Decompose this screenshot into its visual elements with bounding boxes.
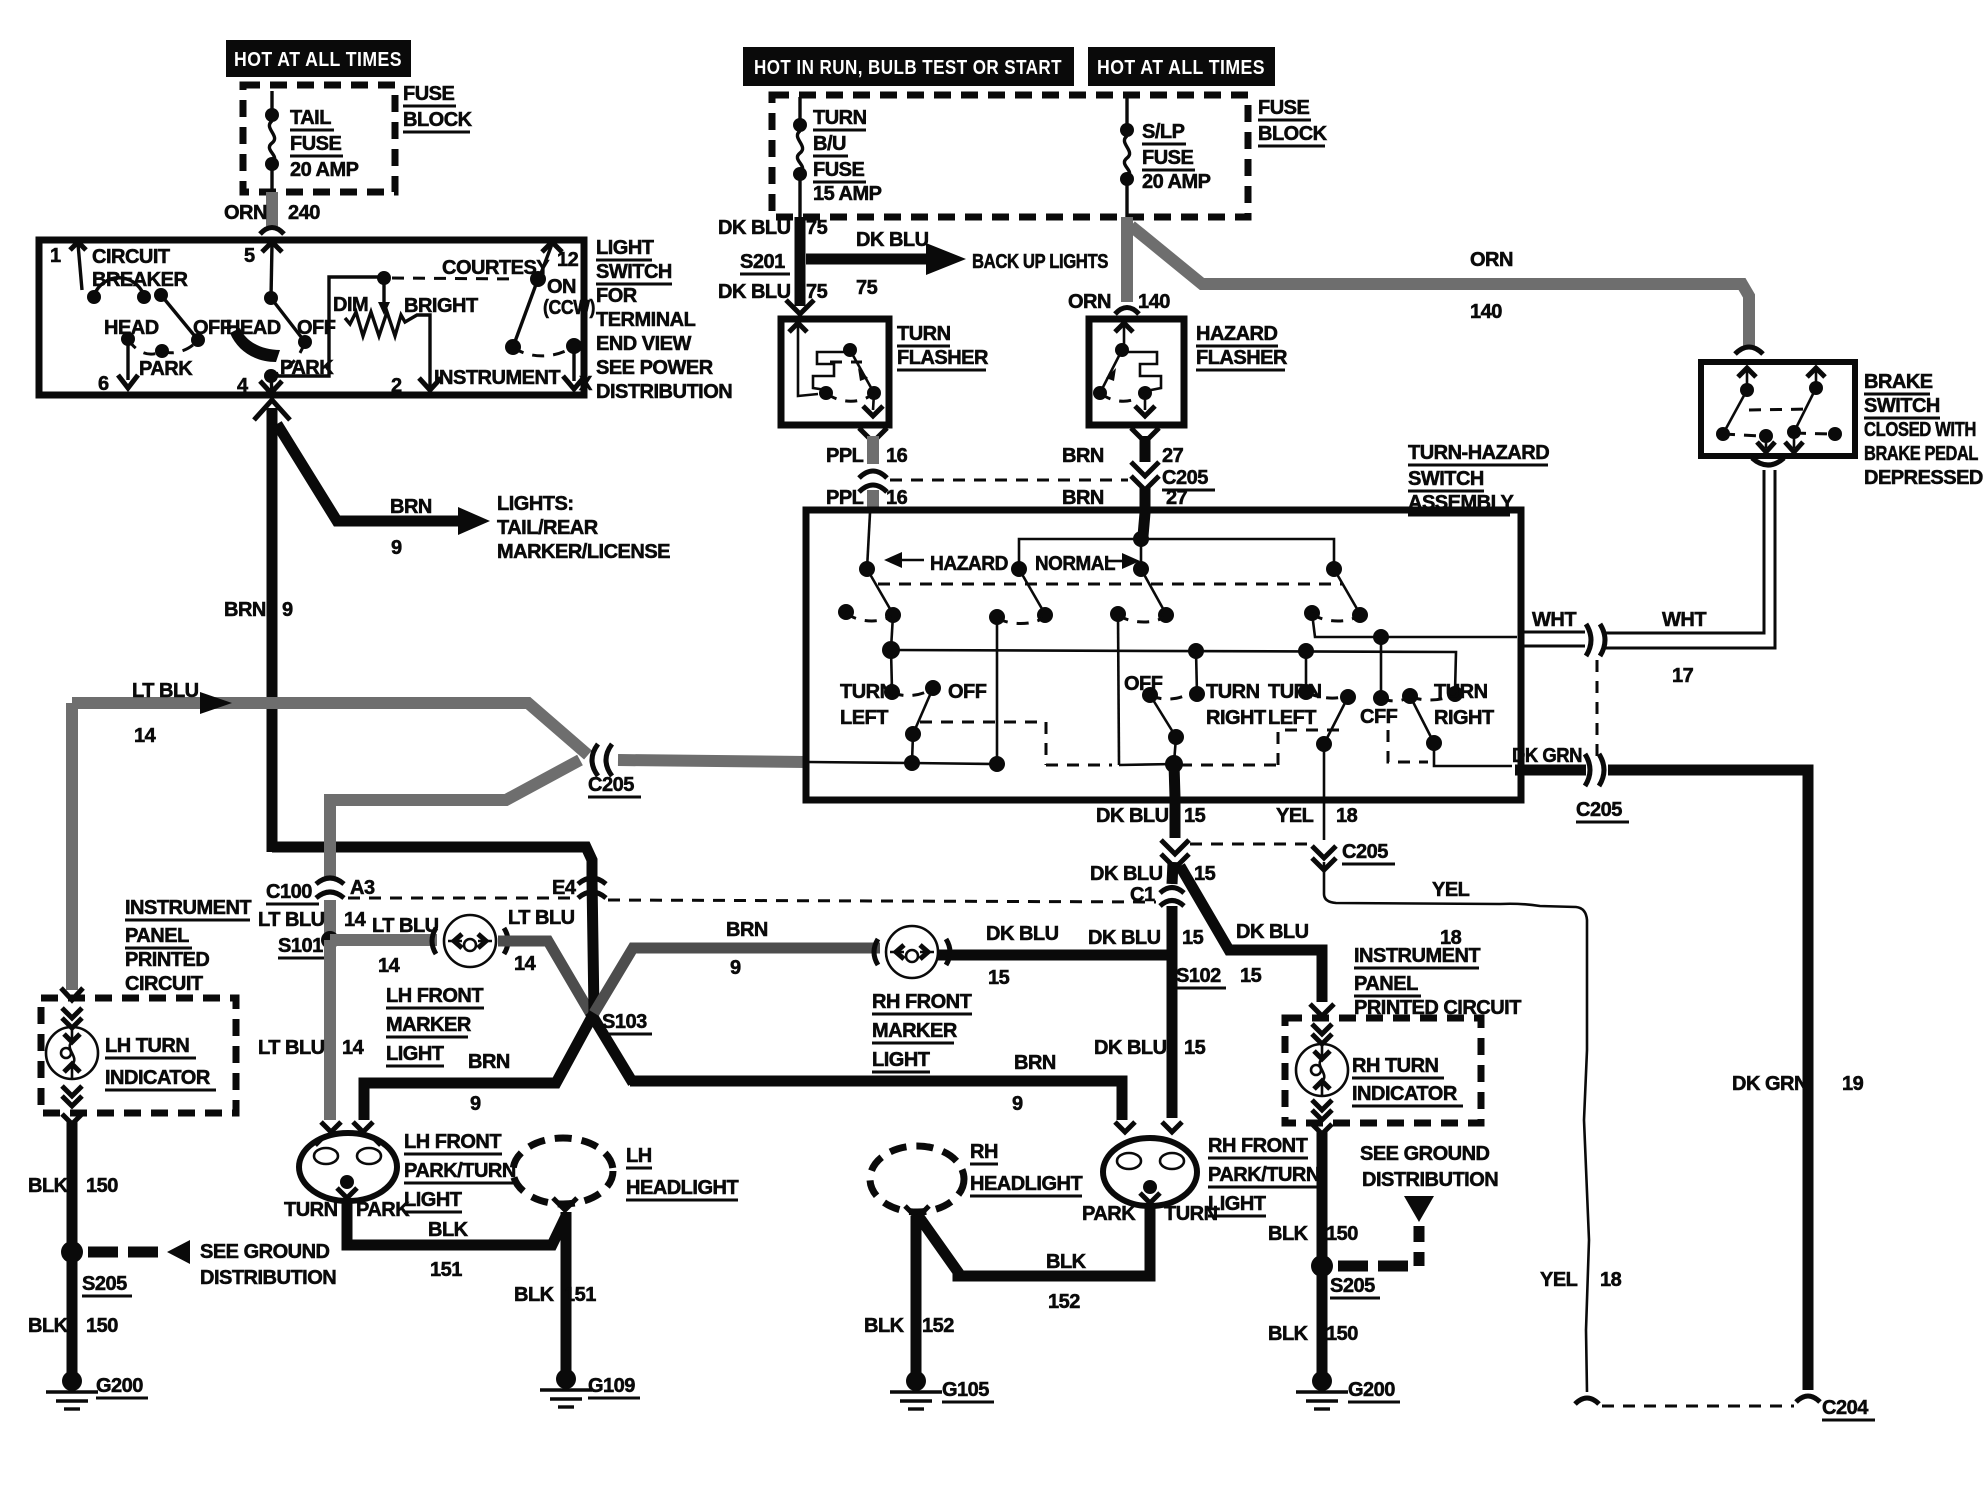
SEC_SWITCHBOX	[806, 442, 1549, 800]
svg-text:(CCW): (CCW)	[543, 297, 595, 319]
switch pole 3	[1133, 561, 1149, 577]
svg-text:S205: S205	[1330, 1275, 1375, 1297]
svg-text:DEPRESSED: DEPRESSED	[1864, 467, 1983, 489]
connector C205 (LT BLU)	[592, 744, 598, 776]
svg-text:BLOCK: BLOCK	[1258, 123, 1328, 145]
svg-text:DK BLU: DK BLU	[1236, 921, 1309, 943]
svg-text:C204: C204	[1822, 1397, 1869, 1419]
svg-text:DK BLU: DK BLU	[986, 923, 1059, 945]
svg-text:PANEL: PANEL	[1354, 973, 1418, 995]
svg-text:WHT: WHT	[1532, 609, 1576, 631]
SEC_LEFTCOL	[28, 703, 336, 1409]
svg-text:BRN: BRN	[1062, 445, 1104, 467]
svg-text:BLK: BLK	[514, 1284, 555, 1306]
svg-text:TURN: TURN	[1206, 681, 1260, 703]
wire LT BLU to LH turn indicator	[66, 703, 78, 990]
wire LT BLU lower branch to C205	[330, 760, 580, 806]
svg-text:C205: C205	[1342, 841, 1388, 863]
svg-text:LH FRONT: LH FRONT	[404, 1131, 501, 1153]
svg-text:INSTRUMENT: INSTRUMENT	[1354, 945, 1480, 967]
svg-text:PARK/TURN: PARK/TURN	[404, 1160, 516, 1182]
wire LT BLU down to LH park/turn TURN	[324, 940, 336, 1120]
svg-text:CIRCUIT: CIRCUIT	[125, 973, 203, 995]
svg-text:150: 150	[1326, 1223, 1358, 1245]
turn-hazard switch assembly box	[806, 510, 1521, 800]
svg-text:BACK UP LIGHTS: BACK UP LIGHTS	[972, 251, 1108, 273]
svg-text:LEFT: LEFT	[1268, 707, 1316, 729]
fuse S/LP FUSE 20 AMP	[1125, 97, 1128, 128]
svg-text:75: 75	[806, 217, 828, 239]
svg-text:27: 27	[1166, 487, 1188, 509]
svg-text:14: 14	[514, 953, 537, 975]
svg-text:240: 240	[288, 202, 320, 224]
svg-text:OFF: OFF	[1124, 673, 1163, 695]
svg-text:2: 2	[391, 375, 402, 397]
wire BRN inside to top rail	[1143, 513, 1145, 536]
svg-text:C205: C205	[588, 774, 634, 796]
switch pole 2	[1011, 561, 1027, 577]
svg-text:LIGHT: LIGHT	[404, 1189, 462, 1211]
svg-text:BLK: BLK	[1268, 1323, 1309, 1345]
svg-text:14: 14	[378, 955, 401, 977]
svg-text:BREAKER: BREAKER	[92, 269, 188, 291]
svg-text:HEADLIGHT: HEADLIGHT	[626, 1177, 738, 1199]
svg-text:INSTRUMENT: INSTRUMENT	[125, 897, 251, 919]
svg-text:FUSE: FUSE	[1142, 147, 1194, 169]
svg-text:PRINTED: PRINTED	[125, 949, 209, 971]
SEC_FLASHERS	[781, 319, 1288, 514]
switch TURN LEFT / OFF (left)	[891, 650, 892, 690]
svg-text:151: 151	[430, 1259, 462, 1281]
wire YEL 18 from switch assembly	[1323, 797, 1326, 840]
wire LT BLU into switch assembly	[618, 760, 806, 762]
svg-text:TURN-HAZARD: TURN-HAZARD	[1408, 442, 1549, 464]
wire DK BLU down through C1	[1172, 862, 1173, 884]
svg-text:S101: S101	[278, 935, 323, 957]
svg-text:CIRCUIT: CIRCUIT	[92, 246, 170, 268]
wire pole1 to rail	[891, 615, 893, 649]
svg-text:150: 150	[86, 1175, 118, 1197]
svg-text:RIGHT: RIGHT	[1206, 707, 1266, 729]
svg-text:LT BLU: LT BLU	[258, 909, 325, 931]
svg-text:LH TURN: LH TURN	[105, 1035, 189, 1057]
svg-text:9: 9	[282, 599, 293, 621]
SEC_BRN_LTBLU	[72, 400, 1156, 1120]
svg-text:LH FRONT: LH FRONT	[386, 985, 483, 1007]
svg-text:DISTRIBUTION: DISTRIBUTION	[1362, 1169, 1498, 1191]
svg-text:FUSE: FUSE	[290, 133, 342, 155]
svg-text:MARKER: MARKER	[872, 1020, 958, 1042]
svg-text:LIGHT: LIGHT	[386, 1043, 444, 1065]
svg-text:20 AMP: 20 AMP	[1142, 171, 1211, 193]
SEC_LIGHTSWITCH	[39, 237, 732, 403]
svg-text:TURN: TURN	[897, 323, 951, 345]
svg-text:140: 140	[1138, 291, 1170, 313]
connector LH HEADLIGHT	[513, 1138, 613, 1204]
svg-text:LH: LH	[626, 1145, 652, 1167]
svg-text:BRN: BRN	[390, 496, 432, 518]
svg-text:DK BLU: DK BLU	[718, 281, 791, 303]
svg-text:1: 1	[50, 245, 61, 267]
svg-text:75: 75	[856, 277, 878, 299]
svg-text:LT BLU: LT BLU	[372, 915, 439, 937]
light switch box	[39, 240, 584, 395]
svg-text:HOT AT ALL TIMES: HOT AT ALL TIMES	[234, 49, 402, 71]
relay TURN FLASHER	[781, 319, 889, 425]
power label HOT AT ALL TIMES (left)	[226, 40, 411, 77]
fuse TURN B/U FUSE 15 AMP	[798, 97, 801, 123]
svg-text:C1: C1	[1130, 884, 1155, 906]
arrow HAZARD	[898, 559, 924, 562]
svg-text:9: 9	[470, 1093, 481, 1115]
svg-text:HAZARD: HAZARD	[1196, 323, 1277, 345]
node top rail	[1133, 531, 1149, 547]
svg-text:16: 16	[886, 445, 908, 467]
svg-text:75: 75	[806, 281, 828, 303]
svg-text:9: 9	[1012, 1093, 1023, 1115]
power label HOT IN RUN, BULB TEST OR START	[743, 47, 1074, 86]
wire DK BLU 75 / splice S201	[795, 217, 806, 306]
svg-text:WHT: WHT	[1662, 609, 1706, 631]
connector C100 on LT BLU (A3)	[324, 800, 336, 878]
rheostat DIM/BRIGHT	[382, 284, 385, 303]
svg-text:15: 15	[1194, 863, 1216, 885]
splice S103 branch BRN 9 to RH marker	[594, 948, 880, 1013]
svg-text:BLK: BLK	[428, 1219, 469, 1241]
mechanical dashed link row1	[878, 583, 1342, 586]
svg-text:SEE GROUND: SEE GROUND	[1360, 1143, 1490, 1165]
svg-text:DK BLU: DK BLU	[718, 217, 791, 239]
svg-text:15: 15	[988, 967, 1010, 989]
wire BLK 150 below indicator	[62, 1114, 82, 1124]
wire BRN 9 to RH park/turn light	[630, 1081, 1122, 1120]
fuse block (right)	[772, 95, 1248, 217]
svg-text:TAIL: TAIL	[290, 107, 331, 129]
svg-text:S/LP: S/LP	[1142, 121, 1185, 143]
wire ORN 140 long run to brake switch	[1131, 226, 1749, 346]
svg-text:15: 15	[1184, 1037, 1206, 1059]
svg-text:INDICATOR: INDICATOR	[1352, 1083, 1458, 1105]
svg-text:HOT IN RUN, BULB TEST OR STAR: HOT IN RUN, BULB TEST OR START	[754, 57, 1062, 79]
wire ORN 240 fuse to light switch	[266, 192, 278, 230]
svg-text:TURN: TURN	[840, 681, 894, 703]
svg-text:LT BLU: LT BLU	[258, 1037, 325, 1059]
wire into tail fuse	[270, 91, 273, 113]
svg-text:SWITCH: SWITCH	[596, 261, 672, 283]
svg-text:INDICATOR: INDICATOR	[105, 1067, 211, 1089]
svg-text:SWITCH: SWITCH	[1864, 395, 1940, 417]
svg-text:RIGHT: RIGHT	[1434, 707, 1494, 729]
svg-text:LIGHTS:: LIGHTS:	[497, 493, 574, 515]
svg-text:G200: G200	[96, 1375, 143, 1397]
svg-text:150: 150	[86, 1315, 118, 1337]
wire BRN 9 from light switch pin 4	[254, 400, 290, 420]
svg-text:TURN: TURN	[284, 1199, 338, 1221]
switch pole 4	[1326, 561, 1342, 577]
svg-text:X: X	[579, 373, 593, 395]
svg-text:ON: ON	[547, 276, 576, 298]
node WHT junction	[1312, 613, 1517, 637]
fuse block (left)	[243, 85, 395, 192]
svg-text:SEE POWER: SEE POWER	[596, 357, 714, 379]
lamp LH TURN INDICATOR	[62, 1008, 82, 1018]
relay HAZARD FLASHER	[1089, 319, 1184, 425]
head/off/park switch 1	[154, 288, 168, 302]
SEC_TOPLEFT	[224, 40, 473, 234]
svg-text:14: 14	[342, 1037, 365, 1059]
svg-text:15 AMP: 15 AMP	[813, 183, 882, 205]
svg-text:SEE GROUND: SEE GROUND	[200, 1241, 330, 1263]
svg-text:YEL: YEL	[1432, 879, 1470, 901]
wire DK BLU exit	[1174, 764, 1175, 797]
wire LH marker output into S103 crossing	[498, 941, 592, 1016]
svg-text:G109: G109	[588, 1375, 635, 1397]
svg-text:PARK: PARK	[356, 1199, 410, 1221]
svg-text:15: 15	[1184, 805, 1206, 827]
svg-text:CFF: CFF	[1360, 706, 1398, 728]
pin 6	[126, 345, 129, 380]
fuse TAIL FUSE 20 AMP	[265, 108, 279, 122]
svg-text:PARK: PARK	[139, 358, 193, 380]
svg-text:PPL: PPL	[826, 487, 864, 509]
wire BRN 27	[1131, 428, 1159, 442]
svg-text:140: 140	[1470, 301, 1502, 323]
svg-text:LEFT: LEFT	[840, 707, 888, 729]
svg-text:15: 15	[1240, 965, 1262, 987]
wire PPL 16	[859, 428, 887, 442]
connector C204 dashed	[1575, 1398, 1599, 1404]
wire ORN 140 to hazard flasher	[1121, 217, 1133, 302]
svg-text:DK BLU: DK BLU	[856, 229, 929, 251]
dashed drop from WHT connector	[1596, 660, 1599, 758]
SEC_RIGHTCOL	[864, 797, 1521, 1409]
connector C205 on BRN	[1131, 462, 1159, 476]
svg-text:PARK: PARK	[1082, 1203, 1136, 1225]
wire BRN horizontal to E4	[272, 847, 592, 879]
svg-text:NORMAL: NORMAL	[1035, 553, 1115, 575]
svg-text:CLOSED WITH: CLOSED WITH	[1864, 419, 1976, 441]
svg-text:150: 150	[1326, 1323, 1358, 1345]
wire BLK 150 (RH)	[1312, 1124, 1332, 1134]
svg-text:16: 16	[886, 487, 908, 509]
svg-text:ORN: ORN	[1470, 249, 1513, 271]
pin 2	[419, 378, 441, 390]
wire DK GRN exit / C205	[1515, 765, 1586, 776]
svg-text:S102: S102	[1176, 965, 1221, 987]
svg-text:PARK/TURN: PARK/TURN	[1208, 1164, 1320, 1186]
svg-text:15: 15	[1182, 927, 1204, 949]
power label HOT AT ALL TIMES (right)	[1088, 47, 1275, 86]
connector C205 dashed link	[890, 479, 1128, 482]
svg-text:BRIGHT: BRIGHT	[404, 295, 478, 317]
svg-text:BLK: BLK	[1268, 1223, 1309, 1245]
switch OFF / TURN RIGHT (middle)	[1142, 687, 1158, 703]
svg-text:BLOCK: BLOCK	[403, 109, 473, 131]
svg-text:YEL: YEL	[1540, 1269, 1578, 1291]
park feed to rheostat	[271, 277, 381, 376]
svg-text:DK GRN: DK GRN	[1512, 745, 1582, 767]
svg-text:BLK: BLK	[864, 1315, 905, 1337]
bold wiper crescent	[230, 328, 280, 362]
svg-text:PANEL: PANEL	[125, 925, 189, 947]
SEC_RIGHT	[1276, 362, 1983, 1420]
splice S101	[321, 931, 339, 949]
connector C205 arrow on DK BLU	[1161, 840, 1189, 854]
svg-text:DIM: DIM	[333, 294, 368, 316]
svg-text:LT BLU: LT BLU	[508, 907, 575, 929]
svg-text:9: 9	[391, 537, 402, 559]
svg-text:MARKER/LICENSE: MARKER/LICENSE	[497, 541, 670, 563]
wire BLK 152	[917, 1203, 1150, 1276]
svg-text:DK BLU: DK BLU	[1090, 863, 1163, 885]
svg-text:C205: C205	[1576, 799, 1622, 821]
svg-text:17: 17	[1672, 665, 1694, 687]
svg-text:C205: C205	[1162, 467, 1208, 489]
svg-text:20 AMP: 20 AMP	[290, 159, 359, 181]
arrow BACK UP LIGHTS	[806, 254, 930, 265]
svg-text:6: 6	[98, 373, 109, 395]
svg-text:4: 4	[237, 375, 249, 397]
connector E4	[578, 878, 606, 884]
svg-text:G105: G105	[942, 1379, 989, 1401]
ground G200 (LH)	[62, 1371, 82, 1391]
connector RH HEADLIGHT	[870, 1146, 964, 1212]
svg-text:TURN: TURN	[1434, 681, 1488, 703]
ground G105	[906, 1371, 926, 1391]
splice S205 (RH)	[1311, 1255, 1333, 1277]
svg-text:TURN: TURN	[813, 107, 867, 129]
svg-text:G200: G200	[1348, 1379, 1395, 1401]
circuit breaker CB	[78, 244, 82, 290]
svg-text:RH: RH	[970, 1141, 998, 1163]
svg-text:19: 19	[1842, 1073, 1864, 1095]
svg-text:E4: E4	[552, 877, 577, 899]
svg-text:BRN: BRN	[1062, 487, 1104, 509]
svg-text:BLK: BLK	[28, 1175, 69, 1197]
svg-text:HOT AT ALL TIMES: HOT AT ALL TIMES	[1097, 57, 1265, 79]
svg-text:A3: A3	[350, 877, 375, 899]
svg-text:152: 152	[922, 1315, 954, 1337]
svg-text:BLK: BLK	[28, 1315, 69, 1337]
wire E4 BRN down through S103 to LH park	[364, 879, 594, 1120]
svg-text:FUSE: FUSE	[403, 83, 455, 105]
lamp RH TURN INDICATOR	[1312, 1024, 1332, 1034]
svg-text:18: 18	[1336, 805, 1358, 827]
switch pole 1	[859, 561, 875, 577]
svg-text:B/U: B/U	[813, 133, 846, 155]
svg-text:YEL: YEL	[1276, 805, 1314, 827]
brake switch internals	[1738, 368, 1756, 377]
svg-text:DK GRN: DK GRN	[1732, 1073, 1808, 1095]
wire LT BLU down to S101	[324, 900, 336, 940]
wire BLK 151 from LH park light	[347, 1198, 566, 1245]
svg-text:INSTRUMENT: INSTRUMENT	[434, 367, 560, 389]
svg-text:FLASHER: FLASHER	[897, 347, 989, 369]
svg-text:BRN: BRN	[1014, 1052, 1056, 1074]
svg-text:ORN: ORN	[1068, 291, 1111, 313]
wire LT BLU 14 horizontal	[72, 703, 588, 755]
SEC_MIDROW	[284, 1122, 738, 1407]
svg-text:TAIL/REAR: TAIL/REAR	[497, 517, 599, 539]
ground G200 (RH)	[1312, 1371, 1332, 1391]
svg-text:DK BLU: DK BLU	[1094, 1037, 1167, 1059]
wire DK BLU branch to RH turn indicator	[1180, 866, 1322, 1002]
instrument panel box (LH)	[41, 998, 236, 1113]
connector C205 on PPL	[859, 471, 887, 478]
svg-text:ASSEMBLY: ASSEMBLY	[1408, 492, 1514, 514]
svg-text:151: 151	[564, 1284, 596, 1306]
svg-text:S103: S103	[602, 1011, 647, 1033]
svg-text:BRN: BRN	[468, 1051, 510, 1073]
svg-text:BRAKE PEDAL: BRAKE PEDAL	[1864, 443, 1978, 465]
wire LT BLU to LH marker	[330, 934, 437, 946]
svg-text:BRN: BRN	[726, 919, 768, 941]
head/off/park switch 2	[264, 291, 278, 305]
wire WHT 17 brake switch to switch assembly	[1521, 470, 1775, 648]
svg-text:DISTRIBUTION: DISTRIBUTION	[200, 1267, 336, 1289]
svg-text:HEADLIGHT: HEADLIGHT	[970, 1173, 1082, 1195]
lamp RH FRONT MARKER LIGHT	[874, 926, 950, 978]
instrument panel box (RH)	[1310, 1004, 1334, 1016]
svg-text:BRAKE: BRAKE	[1864, 371, 1933, 393]
svg-text:S205: S205	[82, 1273, 127, 1295]
svg-text:MARKER: MARKER	[386, 1014, 472, 1036]
svg-text:FUSE: FUSE	[813, 159, 865, 181]
svg-text:S201: S201	[740, 251, 785, 273]
svg-text:FLASHER: FLASHER	[1196, 347, 1288, 369]
rail to turn contacts	[891, 650, 1456, 692]
svg-text:TERMINAL: TERMINAL	[596, 309, 696, 331]
svg-text:PPL: PPL	[826, 445, 864, 467]
pin 4	[271, 376, 272, 393]
wire LT BLU inside	[808, 617, 997, 764]
svg-text:9: 9	[730, 957, 741, 979]
svg-text:18: 18	[1600, 1269, 1622, 1291]
wire DK BLU 15 from switch assembly	[1170, 797, 1181, 838]
wire DK BLU marker to S102	[938, 950, 1172, 961]
svg-text:DISTRIBUTION: DISTRIBUTION	[596, 381, 732, 403]
svg-text:BRN: BRN	[224, 599, 266, 621]
svg-text:LIGHT: LIGHT	[872, 1049, 930, 1071]
mech dashed link	[392, 278, 518, 279]
wire branch arrow LIGHTS TAIL/REAR	[277, 424, 462, 521]
svg-text:HAZARD: HAZARD	[930, 553, 1008, 575]
svg-text:C100: C100	[266, 881, 312, 903]
svg-text:FOR: FOR	[596, 285, 638, 307]
svg-text:DK BLU: DK BLU	[1096, 805, 1169, 827]
svg-text:14: 14	[344, 909, 367, 931]
svg-text:5: 5	[244, 245, 255, 267]
brake switch box	[1701, 362, 1855, 456]
ground G109	[556, 1369, 576, 1389]
svg-text:SWITCH: SWITCH	[1408, 468, 1484, 490]
connector LH FRONT PARK/TURN LIGHT	[321, 1122, 341, 1132]
svg-text:RH FRONT: RH FRONT	[872, 991, 972, 1013]
svg-text:14: 14	[134, 725, 157, 747]
svg-text:152: 152	[1048, 1291, 1080, 1313]
svg-text:OFF: OFF	[948, 681, 987, 703]
svg-text:TURN: TURN	[1164, 1203, 1218, 1225]
connector C100 dashed line	[348, 897, 574, 900]
mechanical dashed link row2	[920, 721, 1046, 724]
SEC_TOPMID	[718, 47, 1763, 354]
svg-text:END VIEW: END VIEW	[596, 333, 692, 355]
svg-text:DK BLU: DK BLU	[1088, 927, 1161, 949]
svg-text:BLK: BLK	[1046, 1251, 1087, 1273]
svg-text:RH FRONT: RH FRONT	[1208, 1135, 1308, 1157]
connector RH FRONT PARK/TURN LIGHT	[1115, 1122, 1135, 1132]
svg-text:ORN: ORN	[224, 202, 267, 224]
